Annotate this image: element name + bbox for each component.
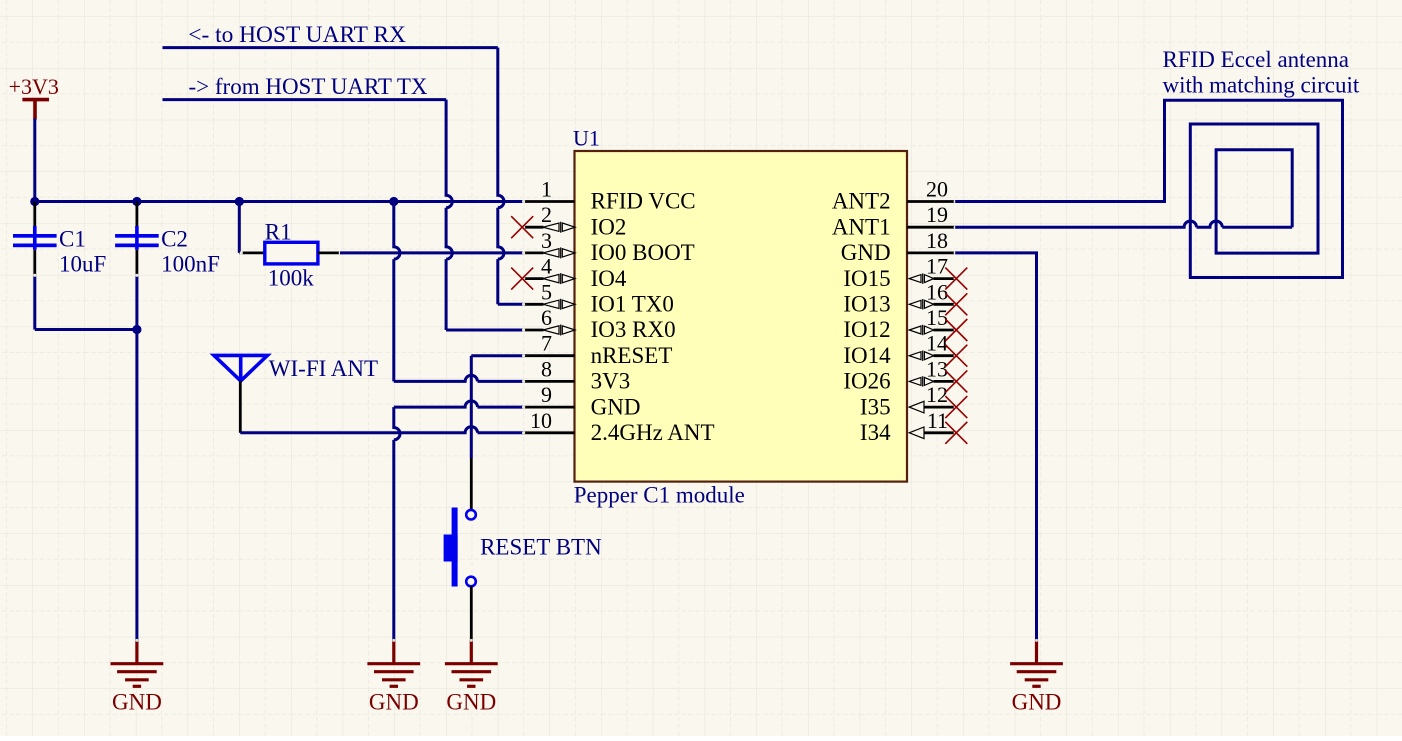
- pin 3 bidir indicator: [543, 247, 575, 258]
- pin 9 line: [524, 406, 575, 409]
- svg-text:IO15: IO15: [843, 266, 890, 291]
- resistor R1 100k: [238, 202, 241, 253]
- pin 8 line: [524, 380, 575, 383]
- pin 19 line: [907, 226, 955, 229]
- wire antenna to pin10: [240, 427, 523, 433]
- svg-text:IO4: IO4: [591, 266, 627, 291]
- ground GND middle: [367, 640, 420, 687]
- pin 6 bidir indicator: [543, 325, 575, 336]
- pin 13 line: [934, 380, 956, 383]
- svg-text:13: 13: [926, 356, 948, 381]
- svg-text:20: 20: [926, 177, 948, 202]
- pin 5 bidir indicator: [543, 299, 575, 310]
- svg-text:2.4GHz ANT: 2.4GHz ANT: [591, 420, 715, 445]
- node junction bus-C1: [30, 197, 39, 206]
- antenna WI-FI ANT: [214, 355, 267, 381]
- pin 7 line: [524, 354, 575, 357]
- wire reset pin bottom: [470, 586, 473, 639]
- pin 2 line: [524, 226, 544, 229]
- svg-text:RFID VCC: RFID VCC: [591, 189, 696, 214]
- svg-text:WI-FI ANT: WI-FI ANT: [269, 356, 378, 381]
- no-connect X pin4: [511, 268, 533, 290]
- pin 12 line: [924, 406, 956, 409]
- svg-text:GND: GND: [1012, 690, 1062, 715]
- pin 16 line: [934, 303, 956, 306]
- svg-text:10: 10: [530, 408, 552, 433]
- svg-text:I35: I35: [860, 394, 891, 419]
- wire +3V3 to bus: [33, 119, 36, 202]
- svg-text:<- to HOST UART RX: <- to HOST UART RX: [188, 22, 406, 48]
- svg-text:5: 5: [541, 279, 552, 304]
- svg-text:1: 1: [541, 177, 552, 202]
- pin 11 input indicator: [909, 427, 924, 439]
- svg-text:GND: GND: [369, 690, 419, 715]
- svg-text:GND: GND: [446, 690, 496, 715]
- svg-text:100nF: 100nF: [161, 252, 220, 277]
- svg-text:RESET BTN: RESET BTN: [480, 535, 602, 560]
- pin 11 line: [924, 431, 956, 434]
- ground GND right: [1010, 640, 1063, 687]
- svg-text:ANT1: ANT1: [832, 214, 891, 239]
- wire reset vertical: [470, 356, 473, 458]
- switch RESET BTN: [444, 508, 476, 587]
- svg-text:GND: GND: [841, 240, 891, 265]
- svg-text:10uF: 10uF: [59, 252, 106, 277]
- svg-text:19: 19: [926, 202, 948, 227]
- no-connect X pin 11: [945, 422, 967, 444]
- pin 14 line: [934, 354, 956, 357]
- pin 1 line: [524, 200, 575, 203]
- pin 2 bidir indicator: [543, 222, 575, 233]
- wire C1-C2 bottom: [35, 328, 137, 331]
- svg-text:IO12: IO12: [843, 317, 890, 342]
- antenna RFID spiral: [955, 100, 1342, 277]
- capacitor C1 10uF: [33, 202, 36, 228]
- pin 4 line: [524, 277, 544, 280]
- wire antenna stem: [239, 381, 242, 433]
- wire C2 branch to GND: [135, 330, 138, 640]
- svg-text:with matching circuit: with matching circuit: [1163, 73, 1360, 98]
- pin 5 line: [524, 303, 544, 306]
- no-connect X pin 12: [945, 396, 967, 418]
- svg-text:IO13: IO13: [843, 292, 890, 317]
- pin 17 bidir indicator: [909, 273, 934, 283]
- no-connect X pin 14: [945, 345, 967, 367]
- wire RX to pin5: [498, 303, 524, 306]
- wire 3V3 bus: [33, 200, 523, 203]
- svg-text:4: 4: [541, 254, 552, 279]
- node junction bus-C2: [132, 197, 141, 206]
- pin 15 line: [934, 329, 956, 332]
- node junction bus-pin8: [389, 197, 398, 206]
- svg-text:8: 8: [541, 356, 552, 381]
- svg-text:3V3: 3V3: [591, 369, 631, 394]
- svg-text:Pepper C1 module: Pepper C1 module: [574, 483, 745, 508]
- svg-text:C2: C2: [161, 227, 188, 252]
- svg-text:3: 3: [541, 228, 552, 253]
- svg-text:IO1 TX0: IO1 TX0: [591, 292, 674, 317]
- no-connect X pin 16: [945, 293, 967, 315]
- op-amp U1 body: [575, 151, 908, 482]
- svg-text:GND: GND: [591, 394, 641, 419]
- svg-text:6: 6: [541, 305, 552, 330]
- node junction bottom: [132, 325, 141, 334]
- no-connect X pin 15: [945, 319, 967, 341]
- svg-text:14: 14: [926, 331, 948, 356]
- svg-text:IO0 BOOT: IO0 BOOT: [591, 240, 695, 265]
- pin 12 input indicator: [909, 401, 924, 413]
- wire to pin8 horizontal: [394, 375, 524, 381]
- wire HOST UART TX: [163, 98, 447, 101]
- pin 6 line: [524, 329, 544, 332]
- power +3V3 symbol: [22, 100, 49, 120]
- svg-text:9: 9: [541, 382, 552, 407]
- wire reset pin top: [470, 458, 473, 510]
- wire R1 to pin3: [340, 251, 524, 254]
- pin 14 bidir indicator: [909, 351, 934, 361]
- svg-text:+3V3: +3V3: [9, 74, 59, 99]
- wire pin18 to GND: [955, 253, 1036, 640]
- svg-text:17: 17: [926, 254, 948, 279]
- svg-text:C1: C1: [59, 227, 86, 252]
- node junction bus-R1: [235, 197, 244, 206]
- wire TX vertical to pin6: [446, 100, 452, 330]
- pin 20 line: [907, 200, 955, 203]
- pin 16 bidir indicator: [909, 299, 934, 309]
- svg-text:R1: R1: [265, 219, 292, 244]
- ground GND left: [111, 640, 164, 687]
- svg-text:IO3 RX0: IO3 RX0: [591, 317, 676, 342]
- svg-text:U1: U1: [573, 126, 600, 151]
- svg-text:IO2: IO2: [591, 214, 627, 239]
- svg-text:18: 18: [926, 228, 948, 253]
- svg-text:GND: GND: [112, 690, 162, 715]
- pin 18 line: [907, 251, 955, 254]
- wire bus to pin8 vertical: [394, 202, 400, 382]
- svg-text:ANT2: ANT2: [832, 189, 891, 214]
- wire TX to pin6: [446, 329, 523, 332]
- svg-text:nRESET: nRESET: [591, 343, 673, 368]
- svg-text:2: 2: [541, 202, 552, 227]
- wire spiral to pin19: [955, 221, 1292, 227]
- wire RX vertical to pin5: [498, 48, 504, 305]
- svg-text:11: 11: [927, 408, 948, 433]
- svg-text:12: 12: [926, 382, 948, 407]
- svg-text:100k: 100k: [268, 266, 315, 291]
- ground GND reset: [445, 640, 498, 687]
- wire GND to pin9 vertical: [394, 407, 400, 640]
- pin 13 bidir indicator: [909, 376, 934, 386]
- pin 17 line: [934, 277, 956, 280]
- svg-text:IO26: IO26: [843, 369, 890, 394]
- no-connect X pin2: [511, 216, 533, 238]
- wire HOST UART RX: [163, 46, 498, 49]
- pin 4 bidir indicator: [543, 273, 575, 284]
- svg-text:IO14: IO14: [843, 343, 891, 368]
- wire pin7 to reset: [471, 354, 523, 357]
- svg-text:I34: I34: [860, 420, 891, 445]
- svg-text:16: 16: [926, 279, 948, 304]
- pin 15 bidir indicator: [909, 325, 934, 335]
- svg-text:RFID Eccel antenna: RFID Eccel antenna: [1163, 47, 1349, 72]
- no-connect X pin 13: [945, 370, 967, 392]
- svg-text:-> from HOST UART TX: -> from HOST UART TX: [189, 74, 428, 99]
- svg-text:7: 7: [541, 331, 552, 356]
- wire to pin9 horizontal: [394, 401, 524, 407]
- pin 3 line: [524, 251, 544, 254]
- svg-text:15: 15: [926, 305, 948, 330]
- no-connect X pin 17: [945, 268, 967, 290]
- pin 10 line: [524, 431, 575, 434]
- capacitor C2 100nF: [135, 202, 138, 228]
